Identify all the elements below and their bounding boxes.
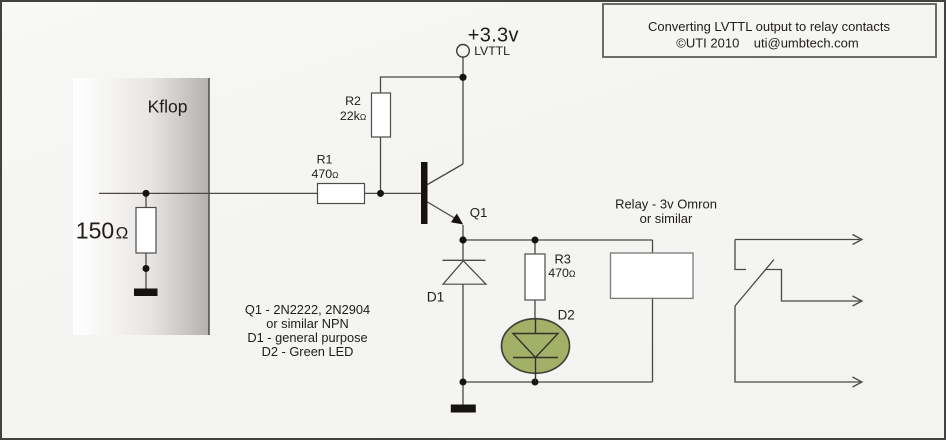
svg-text:D1 - general purpose: D1 - general purpose: [247, 330, 367, 345]
svg-text:D2 - Green LED: D2 - Green LED: [262, 344, 354, 359]
svg-text:Converting LVTTL output to rel: Converting LVTTL output to relay contact…: [648, 19, 891, 34]
svg-text:470Ω: 470Ω: [548, 266, 576, 280]
svg-text:22kΩ: 22kΩ: [340, 109, 366, 123]
svg-text:R3: R3: [555, 251, 571, 266]
svg-text:Q1: Q1: [470, 205, 488, 220]
svg-text:or similar NPN: or similar NPN: [266, 316, 348, 331]
svg-text:©UTI 2010 uti@umbtech.com: ©UTI 2010 uti@umbtech.com: [676, 35, 858, 50]
svg-text:R1: R1: [317, 153, 333, 167]
svg-text:+3.3v: +3.3v: [468, 24, 519, 46]
svg-text:D1: D1: [427, 290, 445, 305]
svg-text:R2: R2: [345, 94, 361, 108]
svg-text:Q1 - 2N2222, 2N2904: Q1 - 2N2222, 2N2904: [245, 302, 370, 317]
svg-text:LVTTL: LVTTL: [474, 44, 510, 58]
svg-text:Kflop: Kflop: [148, 97, 188, 117]
svg-text:Relay - 3v Omron: Relay - 3v Omron: [615, 197, 717, 212]
svg-text:470Ω: 470Ω: [311, 167, 338, 181]
svg-text:D2: D2: [558, 307, 575, 322]
svg-text:or similar: or similar: [640, 211, 693, 226]
